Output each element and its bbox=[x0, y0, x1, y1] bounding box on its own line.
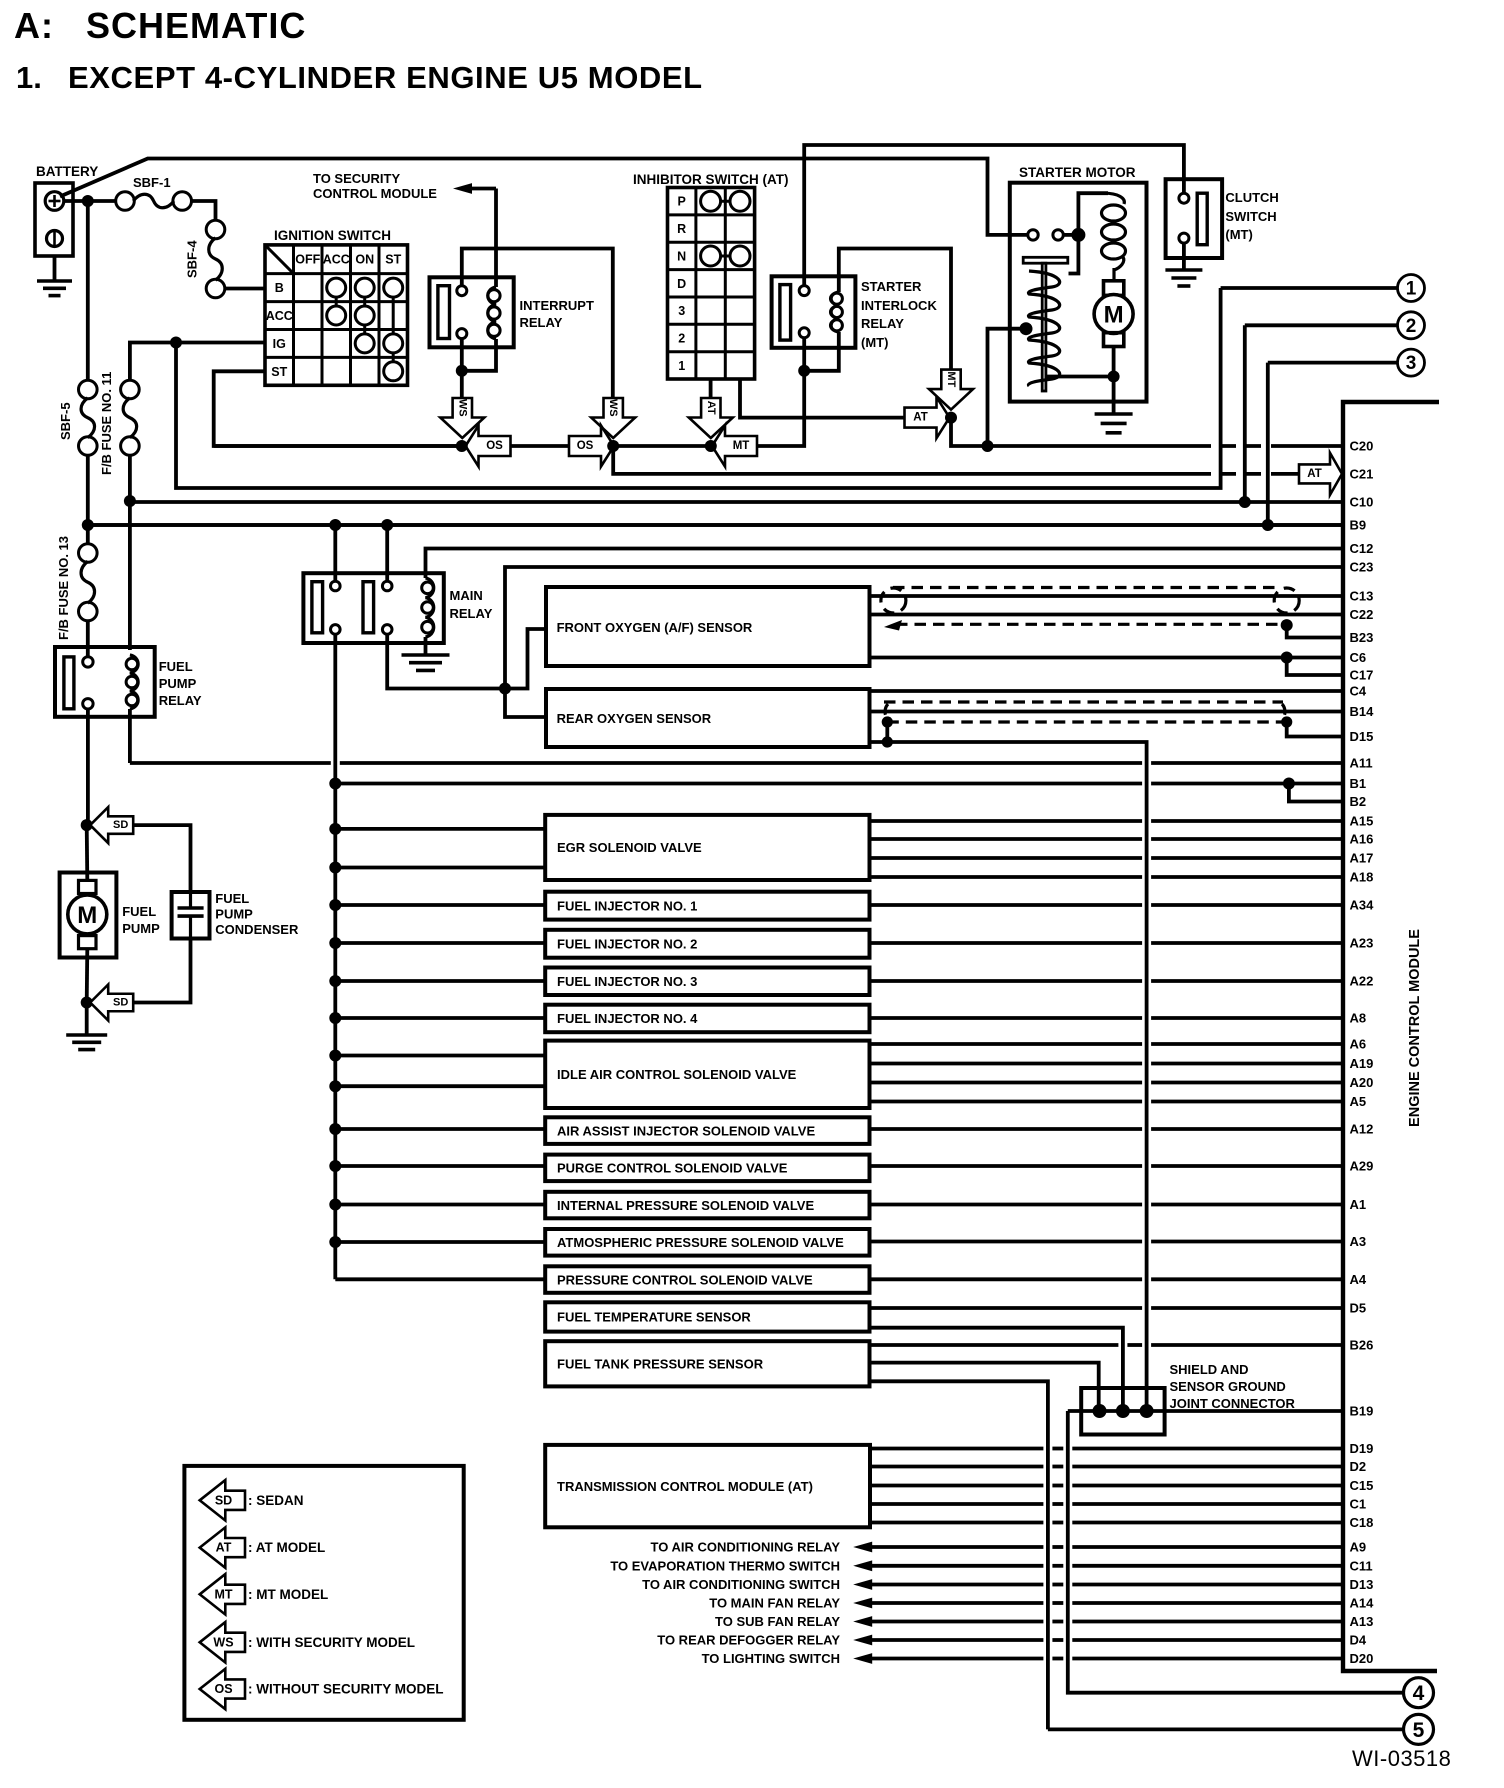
wire main relay coil to ground bbox=[424, 637, 428, 655]
interrupt relay label bbox=[520, 298, 594, 330]
svg-text:AT: AT bbox=[1307, 468, 1321, 480]
node C23/sensor junction bbox=[499, 683, 511, 695]
svg-text:D15: D15 bbox=[1350, 729, 1374, 744]
svg-text:B14: B14 bbox=[1350, 704, 1375, 719]
svg-text:SBF-1: SBF-1 bbox=[133, 175, 171, 190]
svg-text:A15: A15 bbox=[1350, 814, 1374, 829]
wire solenoid junction to plunger bbox=[1069, 241, 1079, 274]
arrow AT model 3 bbox=[689, 398, 733, 438]
svg-text:A6: A6 bbox=[1350, 1037, 1367, 1052]
label ATMOSPHERIC-PRESSURE-SOLENOID-VALVE bbox=[557, 1235, 844, 1250]
svg-text:FUEL: FUEL bbox=[122, 904, 156, 919]
svg-text:C10: C10 bbox=[1350, 495, 1374, 510]
wire pin C4 bbox=[870, 689, 1344, 693]
svg-text:RELAY: RELAY bbox=[159, 693, 202, 708]
wire bus to ATMOSPHERIC-PRESSURE-SOLENOID-VALVE 1242 bbox=[335, 1240, 545, 1244]
main relay label bbox=[450, 588, 493, 621]
svg-text:A17: A17 bbox=[1350, 851, 1374, 866]
node bus FUEL-INJECTOR-NO.-3 981 bbox=[329, 975, 341, 987]
svg-text:A4: A4 bbox=[1350, 1272, 1367, 1287]
arrow WS with-security 1 bbox=[440, 398, 484, 438]
svg-text:B19: B19 bbox=[1350, 1404, 1374, 1419]
svg-text:FUEL INJECTOR NO. 1: FUEL INJECTOR NO. 1 bbox=[557, 898, 697, 913]
fuse SBF-1 label bbox=[133, 175, 171, 190]
label TO-SUB-FAN-RELAY bbox=[715, 1614, 840, 1629]
svg-text:: WITH SECURITY MODEL: : WITH SECURITY MODEL bbox=[248, 1635, 415, 1650]
box FUEL-TANK-PRESSURE-SENSOR bbox=[545, 1341, 869, 1386]
svg-text:MAIN: MAIN bbox=[450, 588, 483, 603]
box INTERNAL-PRESSURE-SOLENOID-VALVE bbox=[545, 1192, 869, 1219]
wire clutch switch to ground bbox=[1182, 243, 1186, 270]
svg-text:FUEL INJECTOR NO. 4: FUEL INJECTOR NO. 4 bbox=[557, 1011, 698, 1026]
wire pin A12 bbox=[870, 1127, 1344, 1131]
box PRESSURE-CONTROL-SOLENOID-VALVE bbox=[545, 1266, 869, 1293]
wire pin D19 bbox=[870, 1447, 1343, 1451]
wire pin A22 bbox=[870, 979, 1344, 983]
legend arrow MT bbox=[200, 1574, 245, 1614]
wire C6 branch to C17 bbox=[1287, 658, 1343, 676]
starter plunger spring bbox=[1028, 271, 1059, 386]
wire fuel pump relay contact down bbox=[86, 709, 90, 825]
joint connector label bbox=[1170, 1362, 1296, 1411]
svg-text:A13: A13 bbox=[1350, 1614, 1374, 1629]
svg-text:B23: B23 bbox=[1350, 630, 1374, 645]
svg-text:A11: A11 bbox=[1350, 756, 1373, 771]
wire pin A6 bbox=[870, 1042, 1344, 1046]
box FUEL-TEMPERATURE-SENSOR bbox=[545, 1302, 869, 1331]
wire pin C13 bbox=[870, 594, 1344, 598]
label FUEL-INJECTOR-NO.-4 bbox=[557, 1011, 698, 1026]
wire pin A18 bbox=[870, 875, 1344, 879]
pin label A8 bbox=[1350, 1011, 1367, 1026]
wire starter contact to solenoid coil bbox=[1063, 193, 1108, 235]
shield front oxygen left loop bbox=[881, 588, 906, 631]
wire pin A5 bbox=[870, 1100, 1344, 1104]
svg-text:CONDENSER: CONDENSER bbox=[215, 922, 299, 937]
legend text OS bbox=[248, 1682, 444, 1697]
ground battery bbox=[37, 281, 72, 296]
arrow TO-EVAPORATION-THERMO-SWITCH bbox=[853, 1560, 872, 1571]
wire starter armature to ground bbox=[1112, 347, 1116, 415]
svg-text:AT: AT bbox=[705, 401, 717, 415]
pin label A9 bbox=[1350, 1540, 1367, 1555]
wire B9 to main relay contact 1 bbox=[333, 525, 337, 581]
pin label C10 bbox=[1350, 495, 1374, 510]
label EGR-SOLENOID-VALVE bbox=[557, 840, 702, 855]
svg-text:PUMP: PUMP bbox=[159, 676, 197, 691]
node joint connector 1 bbox=[1093, 1404, 1107, 1418]
wire main relay coil to C12 bbox=[426, 549, 1344, 579]
svg-text:D13: D13 bbox=[1350, 1577, 1374, 1592]
svg-text:D2: D2 bbox=[1350, 1459, 1367, 1474]
svg-text:SD: SD bbox=[113, 997, 128, 1009]
wire pin C11 bbox=[872, 1564, 1343, 1568]
label TO-MAIN-FAN-RELAY bbox=[709, 1596, 840, 1611]
wire fuel pump relay coil to A11 bbox=[128, 709, 132, 763]
wire bus to INTERNAL-PRESSURE-SOLENOID-VALVE 1204.5 bbox=[335, 1203, 545, 1207]
svg-text:SBF-5: SBF-5 bbox=[58, 402, 73, 440]
pin label B26 bbox=[1350, 1338, 1374, 1353]
svg-text:C20: C20 bbox=[1350, 439, 1374, 454]
svg-text:B26: B26 bbox=[1350, 1338, 1374, 1353]
wire security module to interrupt relay coil bbox=[494, 189, 498, 288]
wire junction3 to interlock relay bbox=[758, 371, 804, 446]
clutch switch SW3 bbox=[1166, 179, 1223, 258]
fuel pump condenser C1 symbol bbox=[178, 892, 204, 939]
svg-text:A8: A8 bbox=[1350, 1011, 1367, 1026]
pin label C11 bbox=[1350, 1558, 1373, 1573]
svg-text:3: 3 bbox=[678, 304, 685, 318]
svg-text:D20: D20 bbox=[1350, 1651, 1374, 1666]
pin label B14 bbox=[1350, 704, 1375, 719]
wire SBF-5 to B9 node bbox=[86, 455, 90, 525]
wire fuse 13 to fuel pump relay bbox=[86, 621, 90, 657]
wire bus to AIR-ASSIST-INJECTOR-SOLENOID-VALVE 1129 bbox=[335, 1127, 545, 1131]
interrupt relay K1 bbox=[430, 277, 514, 347]
svg-text:IG: IG bbox=[273, 337, 286, 351]
svg-text:TO REAR DEFOGGER RELAY: TO REAR DEFOGGER RELAY bbox=[657, 1633, 840, 1648]
pin label C12 bbox=[1350, 541, 1374, 556]
fuse F/B FUSE NO. 11 bbox=[121, 380, 140, 455]
legend arrow WS bbox=[200, 1622, 245, 1662]
rear oxygen sensor box bbox=[546, 689, 870, 747]
node bus FUEL-INJECTOR-NO.-1 905 bbox=[329, 899, 341, 911]
starter solenoid coil bbox=[1078, 193, 1125, 281]
svg-text:A29: A29 bbox=[1350, 1159, 1374, 1174]
node junction WS/OS 1 bbox=[456, 440, 468, 452]
box EGR-SOLENOID-VALVE bbox=[545, 815, 869, 880]
label TO-LIGHTING-SWITCH bbox=[702, 1651, 840, 1666]
node bus B1 junction bbox=[329, 778, 341, 790]
pin label A19 bbox=[1350, 1056, 1374, 1071]
node main relay feed 2 bbox=[381, 519, 393, 531]
main relay contacts bbox=[331, 581, 393, 634]
node bus PURGE-CONTROL-SOLENOID-VALVE 1166 bbox=[329, 1160, 341, 1172]
svg-text:FUEL INJECTOR NO. 3: FUEL INJECTOR NO. 3 bbox=[557, 974, 697, 989]
wire bus to PURGE-CONTROL-SOLENOID-VALVE 1166 bbox=[335, 1164, 545, 1168]
pin label D20 bbox=[1350, 1651, 1374, 1666]
pin label C20 bbox=[1350, 439, 1374, 454]
legend arrow SD bbox=[200, 1480, 245, 1520]
pin label A20 bbox=[1350, 1075, 1374, 1090]
pin label C13 bbox=[1350, 589, 1374, 604]
inhibitor switch contact circles bbox=[701, 191, 750, 266]
arrow TO-LIGHTING-SWITCH bbox=[853, 1653, 872, 1664]
ground starter motor bbox=[1095, 414, 1133, 433]
wire interlock junction to coil bbox=[804, 332, 839, 371]
pin label C6 bbox=[1350, 650, 1367, 665]
wire pin D20 bbox=[872, 1657, 1343, 1661]
svg-text:MT: MT bbox=[733, 440, 750, 452]
wire junction to front oxygen sensor bbox=[505, 629, 546, 689]
svg-text:C17: C17 bbox=[1350, 668, 1374, 683]
label FUEL-INJECTOR-NO.-2 bbox=[557, 936, 697, 951]
svg-text:ATMOSPHERIC PRESSURE SOLENOID: ATMOSPHERIC PRESSURE SOLENOID VALVE bbox=[557, 1235, 844, 1250]
engine control module label bbox=[1407, 929, 1423, 1127]
legend arrow AT bbox=[200, 1527, 245, 1567]
wire bus to FUEL-INJECTOR-NO.-4 1018 bbox=[335, 1016, 545, 1020]
wire pin C22 bbox=[870, 613, 1344, 617]
label PRESSURE-CONTROL-SOLENOID-VALVE bbox=[557, 1272, 813, 1287]
svg-text:FUEL INJECTOR NO. 2: FUEL INJECTOR NO. 2 bbox=[557, 936, 697, 951]
node starter motor bottom junction bbox=[1108, 371, 1120, 383]
svg-text:OS: OS bbox=[486, 440, 503, 452]
wire main relay contact1 to solenoid bus bbox=[333, 634, 337, 1279]
svg-text:ACC: ACC bbox=[266, 309, 293, 323]
ground fuel pump bbox=[66, 1035, 107, 1050]
wire pin A19 bbox=[870, 1062, 1344, 1066]
svg-text:OFF: OFF bbox=[295, 253, 320, 267]
legend text MT bbox=[248, 1587, 328, 1602]
svg-text:EXCEPT 4-CYLINDER ENGINE U5 MO: EXCEPT 4-CYLINDER ENGINE U5 MODEL bbox=[68, 60, 703, 95]
svg-text:A3: A3 bbox=[1350, 1234, 1367, 1249]
svg-text:RELAY: RELAY bbox=[450, 606, 493, 621]
wire bus to IDLE-AIR-CONTROL-SOLENOID-VALVE 1086.2 bbox=[335, 1084, 545, 1088]
svg-text:AT: AT bbox=[913, 412, 927, 424]
fuel pump relay label bbox=[159, 659, 202, 708]
box IDLE-AIR-CONTROL-SOLENOID-VALVE bbox=[545, 1041, 869, 1108]
svg-text:WI-03518: WI-03518 bbox=[1352, 1746, 1451, 1771]
legend box bbox=[184, 1466, 463, 1720]
svg-text:STARTER: STARTER bbox=[861, 279, 922, 294]
wire IG line to fuse 11 bbox=[130, 343, 265, 381]
wire SD2 to ground bbox=[85, 1003, 89, 1036]
pin label A5 bbox=[1350, 1094, 1367, 1109]
wire pin D5 bbox=[870, 1306, 1344, 1310]
fuel pump relay coil bbox=[126, 655, 138, 709]
svg-text:M: M bbox=[1104, 302, 1124, 329]
pin label C4 bbox=[1350, 684, 1367, 699]
svg-text:ENGINE CONTROL MODULE: ENGINE CONTROL MODULE bbox=[1407, 929, 1423, 1127]
shield front oxygen sensor top dash bbox=[893, 586, 1279, 589]
node interrupt relay junction bbox=[456, 365, 468, 377]
pin label B9 bbox=[1350, 518, 1367, 533]
wire pin A20 bbox=[870, 1081, 1344, 1085]
svg-text:D: D bbox=[677, 277, 686, 291]
wire pin A34 bbox=[870, 903, 1344, 907]
wire interlock coil top to MT arrow 4 bbox=[839, 249, 951, 371]
node circled 1 bbox=[1398, 275, 1425, 302]
interrupt relay contacts bbox=[457, 286, 467, 339]
svg-text:A20: A20 bbox=[1350, 1075, 1374, 1090]
label TO-AIR-CONDITIONING-RELAY bbox=[651, 1540, 841, 1555]
subtitle heading bbox=[16, 60, 703, 95]
transmission control module box bbox=[545, 1445, 870, 1527]
wire bus to EGR-SOLENOID-VALVE 828.9 bbox=[335, 827, 545, 831]
wire IG junction down to circled-1 line bbox=[176, 288, 1221, 488]
svg-text:TO SUB FAN RELAY: TO SUB FAN RELAY bbox=[715, 1614, 840, 1629]
wire B1 branch to B2 bbox=[1289, 784, 1343, 802]
arrow AT model 4 bbox=[905, 397, 950, 438]
svg-text:A19: A19 bbox=[1350, 1056, 1374, 1071]
wire interlock top contact to top line bbox=[804, 145, 1184, 286]
transmission control module label bbox=[557, 1479, 813, 1494]
svg-text:A9: A9 bbox=[1350, 1540, 1367, 1555]
pin label C17 bbox=[1350, 668, 1374, 683]
pin label A34 bbox=[1350, 898, 1375, 913]
starter motor contacts bbox=[1028, 230, 1064, 240]
svg-text:5: 5 bbox=[1413, 1719, 1425, 1742]
svg-text:TO AIR CONDITIONING RELAY: TO AIR CONDITIONING RELAY bbox=[651, 1540, 841, 1555]
node joint connector 2 bbox=[1116, 1404, 1130, 1418]
legend text SD bbox=[248, 1493, 304, 1508]
arrow AT model C21 bbox=[1299, 453, 1342, 495]
svg-text:CLUTCH: CLUTCH bbox=[1225, 190, 1278, 205]
label FUEL-INJECTOR-NO.-3 bbox=[557, 974, 697, 989]
arrow SD sedan 2 bbox=[90, 985, 133, 1021]
wire fuel tank to joint connector bbox=[870, 1363, 1099, 1411]
fuel pump relay K4 bbox=[55, 647, 155, 717]
node bus FUEL-INJECTOR-NO.-2 943 bbox=[329, 937, 341, 949]
wire main relay contact2 to C23 node bbox=[387, 634, 505, 688]
wire B19 to circled 4 bbox=[1068, 1411, 1404, 1693]
svg-text:MT: MT bbox=[214, 1587, 232, 1601]
svg-text:WS: WS bbox=[213, 1635, 233, 1649]
wire C23 up and right bbox=[505, 567, 1343, 689]
svg-text:SHIELD AND: SHIELD AND bbox=[1170, 1362, 1249, 1377]
svg-text:F/B FUSE NO. 13: F/B FUSE NO. 13 bbox=[56, 536, 71, 640]
wire pin A1 bbox=[870, 1203, 1344, 1207]
svg-text:C21: C21 bbox=[1350, 467, 1374, 482]
node bus EGR-SOLENOID-VALVE 828.9 bbox=[329, 823, 341, 835]
pin label D13 bbox=[1350, 1577, 1374, 1592]
label FUEL-INJECTOR-NO.-1 bbox=[557, 898, 697, 913]
label INTERNAL-PRESSURE-SOLENOID-VALVE bbox=[557, 1198, 814, 1213]
wire interrupt coil bottom to contact bbox=[462, 339, 496, 371]
svg-text:R: R bbox=[677, 222, 686, 236]
label TO-REAR-DEFOGGER-RELAY bbox=[657, 1633, 840, 1648]
wire pin A11 bbox=[130, 761, 1343, 765]
wire pin C18 bbox=[870, 1521, 1343, 1525]
fuel pump condenser label bbox=[215, 891, 299, 937]
pin label A4 bbox=[1350, 1272, 1367, 1287]
node joint connector 3 bbox=[1140, 1404, 1154, 1418]
wire interrupt contact down to WS arrow bbox=[460, 339, 464, 399]
wire pin A13 bbox=[872, 1620, 1343, 1624]
node SBF-5/B9 junction bbox=[82, 519, 94, 531]
fuse SBF-4 label bbox=[185, 240, 200, 278]
svg-text:A34: A34 bbox=[1350, 898, 1375, 913]
svg-text:RELAY: RELAY bbox=[520, 315, 563, 330]
engine control module box bbox=[1343, 402, 1439, 1671]
fuse F/B FUSE NO. 13 bbox=[79, 544, 98, 621]
svg-text:B1: B1 bbox=[1350, 776, 1367, 791]
legend arrow OS bbox=[200, 1669, 245, 1709]
wire fuel temp to joint connector bbox=[870, 1328, 1123, 1411]
svg-text:: SEDAN: : SEDAN bbox=[248, 1493, 304, 1508]
wire pin A4 bbox=[870, 1277, 1344, 1281]
box FUEL-INJECTOR-NO.-3 bbox=[545, 968, 869, 996]
wire pin D13 bbox=[872, 1583, 1343, 1587]
starter motor M armature bbox=[1094, 281, 1133, 347]
pin label C15 bbox=[1350, 1478, 1374, 1493]
svg-text:C15: C15 bbox=[1350, 1478, 1374, 1493]
node shield to B23 bbox=[1281, 619, 1293, 631]
node circled 3 bbox=[1398, 349, 1425, 376]
svg-text:AIR ASSIST INJECTOR SOLENOID V: AIR ASSIST INJECTOR SOLENOID VALVE bbox=[557, 1123, 815, 1138]
ignition switch SW1 table bbox=[265, 245, 408, 385]
legend text AT bbox=[248, 1540, 325, 1555]
wire to circled node 3 bbox=[1268, 363, 1398, 525]
box FUEL-INJECTOR-NO.-1 bbox=[545, 892, 869, 920]
wire shield to B23 bbox=[1287, 625, 1343, 637]
joint connector box bbox=[1081, 1388, 1164, 1435]
pin label D19 bbox=[1350, 1441, 1374, 1456]
svg-text:FUEL TEMPERATURE SENSOR: FUEL TEMPERATURE SENSOR bbox=[557, 1310, 751, 1325]
svg-text:2: 2 bbox=[678, 332, 685, 346]
starter interlock relay K2 bbox=[772, 276, 856, 348]
svg-text:TO SECURITY: TO SECURITY bbox=[313, 171, 400, 186]
svg-text:INTERLOCK: INTERLOCK bbox=[861, 298, 937, 313]
svg-text:SD: SD bbox=[215, 1493, 232, 1507]
starter motor M2 box bbox=[1010, 183, 1147, 402]
battery negative terminal bbox=[47, 231, 63, 247]
wire pin B14 bbox=[870, 710, 1344, 714]
wire B9 junction to fuse 13 bbox=[86, 525, 90, 544]
wire pin A9 bbox=[872, 1545, 1343, 1549]
pin label A18 bbox=[1350, 870, 1374, 885]
svg-text:C13: C13 bbox=[1350, 589, 1374, 604]
front oxygen sensor box bbox=[546, 587, 870, 666]
starter motor label bbox=[1019, 165, 1136, 180]
arrow WS with-security 2 bbox=[591, 398, 635, 438]
wire rear shield to D15 bbox=[1287, 722, 1343, 737]
pin label B1 bbox=[1350, 776, 1367, 791]
battery B1 label bbox=[36, 164, 98, 179]
wire C21 from junction 2 bbox=[613, 446, 1196, 474]
node B1/B2 junction bbox=[1283, 778, 1295, 790]
svg-text:P: P bbox=[678, 195, 686, 209]
label to security control module bbox=[313, 171, 437, 201]
shield front oxygen sensor bottom dash bbox=[896, 623, 1287, 626]
wire ST row to main line bbox=[214, 371, 462, 446]
node bus AIR-ASSIST-INJECTOR-SOLENOID-VALVE 1129 bbox=[329, 1123, 341, 1135]
box AIR-ASSIST-INJECTOR-SOLENOID-VALVE bbox=[545, 1117, 869, 1144]
shield rear oxygen left end bbox=[885, 704, 888, 719]
svg-text:IDLE AIR CONTROL SOLENOID VALV: IDLE AIR CONTROL SOLENOID VALVE bbox=[557, 1067, 797, 1082]
wire pin A8 bbox=[870, 1016, 1344, 1020]
pin label B2 bbox=[1350, 794, 1367, 809]
node circled2/C10 junction bbox=[1239, 496, 1251, 508]
wire pin C6 bbox=[870, 656, 1344, 660]
pin label A23 bbox=[1350, 936, 1374, 951]
node bus FUEL-INJECTOR-NO.-4 1018 bbox=[329, 1012, 341, 1024]
wire SD2 to condenser bbox=[134, 939, 191, 1003]
svg-text:SCHEMATIC: SCHEMATIC bbox=[86, 5, 306, 46]
svg-text:B9: B9 bbox=[1350, 518, 1367, 533]
starter interlock relay label bbox=[861, 279, 937, 350]
svg-text:ON: ON bbox=[355, 253, 374, 267]
pin label A17 bbox=[1350, 851, 1374, 866]
svg-text:A22: A22 bbox=[1350, 974, 1374, 989]
arrow MT model 3 bbox=[712, 426, 757, 467]
arrow TO-REAR-DEFOGGER-RELAY bbox=[853, 1635, 872, 1646]
svg-text:1: 1 bbox=[1406, 279, 1417, 300]
svg-text:TO EVAPORATION THERMO SWITCH: TO EVAPORATION THERMO SWITCH bbox=[610, 1558, 840, 1573]
wire to circled node 1 bbox=[1221, 286, 1398, 290]
title heading bbox=[14, 5, 306, 46]
pin label C18 bbox=[1350, 1515, 1374, 1530]
arrow TO-SUB-FAN-RELAY bbox=[853, 1616, 872, 1627]
wire SD1 to condenser bbox=[134, 825, 191, 892]
fuel pump M1 bbox=[60, 873, 117, 958]
svg-text:C12: C12 bbox=[1350, 541, 1374, 556]
wire junction4 down to C20 line bbox=[951, 418, 1196, 446]
wire pin A29 bbox=[870, 1164, 1344, 1168]
wire pin D2 bbox=[870, 1465, 1343, 1469]
fuel pump label bbox=[122, 904, 160, 936]
svg-text:SWITCH: SWITCH bbox=[1225, 209, 1276, 224]
